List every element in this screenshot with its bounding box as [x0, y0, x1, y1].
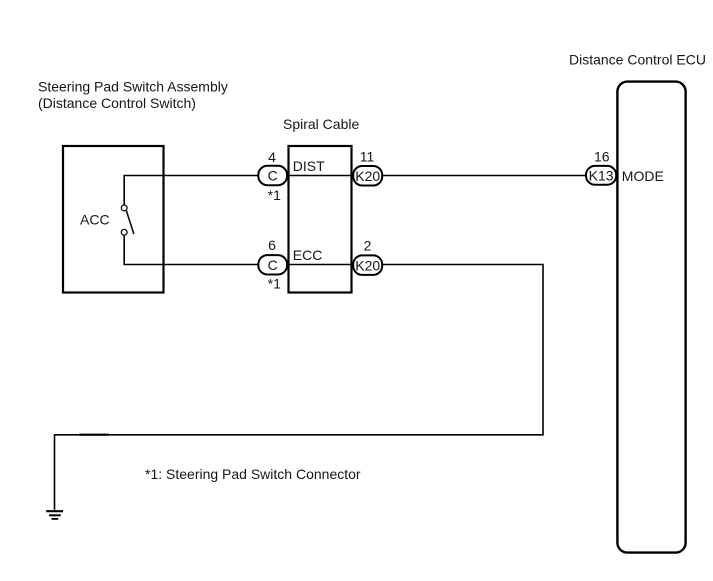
svg-text:2: 2 — [364, 237, 372, 253]
svg-text:DIST: DIST — [293, 158, 325, 174]
switch box: Steering Pad Switch Assembly — [63, 146, 164, 293]
svg-text:*1: *1 — [268, 276, 281, 292]
ECU body: Distance Control ECU — [617, 82, 685, 553]
wire: ACC switch top contact to connector C pin 4 — [124, 176, 258, 205]
ground — [46, 511, 63, 519]
svg-text:6: 6 — [268, 237, 276, 253]
switch ACC: bottom contact — [121, 229, 127, 235]
svg-text:(Distance Control Switch): (Distance Control Switch) — [38, 95, 196, 111]
svg-text:*1: Steering Pad Switch Connec: *1: Steering Pad Switch Connector — [145, 466, 361, 482]
connector K13 (pin 16) — [586, 166, 616, 185]
switch ACC: blade — [126, 210, 134, 234]
svg-text:ECC: ECC — [293, 247, 323, 263]
svg-text:Distance Control ECU: Distance Control ECU — [569, 52, 706, 68]
wire: connector C pin 4 to K20 pin 11 (through spiral cable, DIST) — [287, 175, 353, 177]
wire: K20 pin 2 right then down and left to ground riser — [55, 265, 544, 510]
wire: thick overlap segment on ground run — [79, 434, 109, 436]
svg-text:Steering Pad Switch Assembly: Steering Pad Switch Assembly — [38, 79, 228, 95]
svg-text:4: 4 — [268, 149, 276, 165]
svg-text:Spiral Cable: Spiral Cable — [283, 116, 359, 132]
svg-text:K20: K20 — [355, 168, 380, 184]
wire: connector C pin 6 to K20 pin 2 (through spiral cable, ECC) — [287, 264, 353, 266]
connector K20 (pin 2) — [353, 255, 382, 275]
svg-text:*1: *1 — [268, 187, 281, 203]
spiral cable box — [289, 146, 352, 293]
connector C (pin 4) — [258, 166, 287, 185]
svg-text:K13: K13 — [589, 167, 614, 183]
connector K20 (pin 11) — [353, 166, 382, 186]
label: Steering Pad Switch Assembly (Distance Control Switch) — [38, 79, 228, 111]
switch ACC: top contact — [121, 205, 127, 211]
svg-text:C: C — [268, 168, 278, 184]
svg-text:C: C — [268, 257, 278, 273]
svg-text:11: 11 — [360, 149, 375, 165]
wire: ACC switch bottom contact to connector C pin 6 — [124, 235, 258, 264]
svg-text:MODE: MODE — [622, 168, 664, 184]
wire: K20 pin 11 to K13 pin 16 — [382, 175, 587, 177]
svg-text:16: 16 — [594, 149, 610, 165]
svg-text:K20: K20 — [355, 257, 380, 273]
svg-text:ACC: ACC — [80, 212, 110, 228]
connector C (pin 6) — [258, 255, 287, 274]
